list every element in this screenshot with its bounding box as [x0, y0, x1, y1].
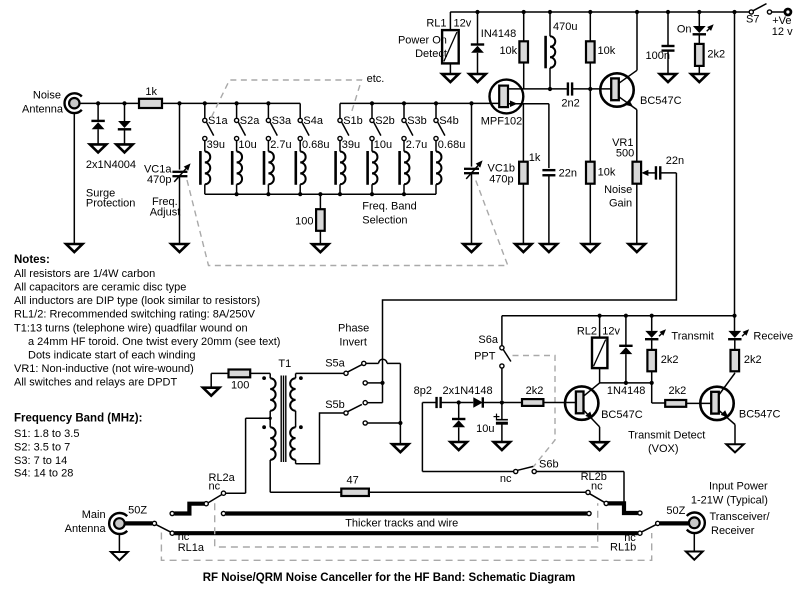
diode 1N4148 shunt: [457, 400, 461, 404]
svg-text:Frequency Band (MHz):: Frequency Band (MHz):: [14, 413, 142, 425]
wire MPF102 drain line: [508, 88, 567, 90]
svg-text:100n: 100n: [646, 50, 670, 62]
resistor 100 primary load: [203, 388, 219, 396]
diode IN4148 power-on: [475, 10, 479, 14]
resistor 10k emitter: [589, 89, 591, 162]
svg-text:S6b: S6b: [539, 458, 559, 470]
resistor 2k2 Q3 base: [502, 402, 522, 404]
transistor MPF102 JFET U1: [490, 80, 524, 114]
diode 1N4004 surge a: [96, 101, 100, 105]
ground below VC1b: [463, 244, 479, 252]
svg-text:1N4148: 1N4148: [607, 385, 646, 397]
resistor 47 bridge: [270, 491, 341, 493]
svg-text:Noise: Noise: [33, 89, 61, 101]
ground below 100n: [660, 74, 676, 82]
resistor 2k2 Q4 base: [665, 400, 686, 407]
wire T1 secondary bottom to S5b: [296, 413, 344, 464]
svg-text:S3b: S3b: [407, 115, 427, 127]
svg-text:39u: 39u: [342, 139, 360, 151]
svg-text:T1:13 turns (telephone wire) q: T1:13 turns (telephone wire) quadfilar w…: [14, 323, 248, 335]
inductor 39u (S1b band): [339, 141, 341, 152]
wire filter bank bottom bus: [205, 193, 436, 195]
relay contact RL1b: [642, 525, 656, 532]
svg-text:12v: 12v: [602, 325, 620, 337]
svg-text:S4a: S4a: [303, 115, 323, 127]
capacitor 100n decoupling: [666, 10, 670, 14]
svg-text:470p: 470p: [489, 173, 513, 185]
svg-text:S6a: S6a: [478, 334, 498, 346]
svg-text:Phase: Phase: [338, 322, 369, 334]
diode 1N4004 surge b: [122, 101, 126, 105]
svg-text:0.68u: 0.68u: [302, 139, 330, 151]
svg-text:Power On: Power On: [398, 35, 447, 47]
node S5b ground throw: [363, 421, 367, 425]
ground below 2k2: [691, 74, 707, 82]
switch S7 power: [749, 10, 753, 14]
svg-text:10u: 10u: [374, 139, 392, 151]
ground input connector: [686, 552, 703, 560]
svg-text:2x1N4148: 2x1N4148: [443, 385, 493, 397]
wire S5a ground throw with hop: [366, 362, 379, 364]
svg-text:470u: 470u: [553, 21, 577, 33]
ground below 22n: [541, 244, 557, 252]
switch S6a PPT: [501, 316, 503, 346]
wire noise signal to phase switch: [660, 172, 676, 174]
svg-text:S4: 14 to 28: S4: 14 to 28: [14, 468, 73, 480]
wire top +12V rail: [450, 11, 749, 13]
svg-text:10k: 10k: [598, 166, 616, 178]
relay RL1 coil: [449, 12, 451, 30]
wire Q4 base: [686, 402, 711, 404]
resistor 1k input: [139, 99, 162, 108]
ground below diode b: [116, 144, 132, 152]
inductor 10u (S2a band): [236, 141, 238, 152]
svg-text:1-21W (Typical): 1-21W (Typical): [691, 495, 768, 507]
svg-text:RL1a: RL1a: [178, 542, 205, 554]
svg-text:(VOX): (VOX): [648, 443, 679, 455]
svg-text:2n2: 2n2: [561, 97, 579, 109]
inductor 39u (S1a band): [204, 141, 206, 152]
resistor 2k2 transmit LED: [651, 339, 653, 350]
wire main antenna ground lead: [118, 534, 120, 552]
svg-text:BC547C: BC547C: [739, 409, 781, 421]
svg-text:39u: 39u: [207, 139, 225, 151]
capacitor 8p2 VOX input: [422, 402, 436, 404]
capacitor 22n source bypass: [548, 104, 550, 168]
wire T1 primary centre tap to RL2a: [269, 417, 272, 420]
svg-text:2.7u: 2.7u: [406, 139, 427, 151]
svg-text:12 v: 12 v: [772, 26, 793, 38]
switch S4a: [299, 103, 301, 118]
svg-text:8p2: 8p2: [414, 385, 432, 397]
wire S5b signal throw: [367, 402, 382, 404]
switch S3a: [267, 103, 269, 118]
dashed box inner thick-track zone: [215, 503, 598, 547]
LED Transmit: [651, 316, 653, 331]
switch S6b: [514, 469, 518, 473]
svg-text:S1: 1.8 to 3.5: S1: 1.8 to 3.5: [14, 428, 79, 440]
svg-text:47: 47: [347, 474, 359, 486]
connector Main Antenna 50Z: [109, 513, 127, 534]
svg-text:RL1: RL1: [426, 18, 446, 30]
switch S2b: [371, 103, 373, 118]
wire Q1 emitter: [619, 97, 637, 110]
transformer T1: [280, 376, 282, 463]
switch S4b: [435, 103, 437, 118]
svg-text:On: On: [677, 24, 692, 36]
svg-text:+Ve: +Ve: [772, 15, 791, 27]
diode 1N4148 series: [473, 397, 483, 407]
svg-text:Antenna: Antenna: [22, 103, 64, 115]
wire T1 secondary top to S5a: [296, 372, 344, 374]
svg-text:1k: 1k: [145, 86, 157, 98]
svg-text:S2b: S2b: [375, 115, 395, 127]
svg-text:Noise: Noise: [604, 184, 632, 196]
ground below 1k: [515, 244, 531, 252]
svg-text:RF Noise/QRM Noise Canceller f: RF Noise/QRM Noise Canceller for the HF …: [203, 572, 576, 584]
resistor 100 bank damping: [319, 194, 321, 209]
svg-text:470p: 470p: [147, 174, 171, 186]
ground below IN4148: [469, 74, 485, 82]
switch S2a: [236, 103, 238, 118]
switch S1b: [339, 103, 341, 118]
ground noise antenna: [66, 244, 82, 252]
svg-text:MPF102: MPF102: [481, 116, 523, 128]
svg-text:Input Power: Input Power: [709, 481, 768, 493]
svg-text:PPT: PPT: [474, 351, 496, 363]
svg-text:a 24mm HF toroid. One twist ev: a 24mm HF toroid. One twist every 20mm (…: [28, 336, 280, 348]
wire noise input bus: [80, 102, 140, 104]
svg-text:S4b: S4b: [439, 115, 459, 127]
ground below Q4: [726, 444, 743, 452]
svg-text:100: 100: [231, 380, 249, 392]
connector Noise Antenna: [65, 93, 82, 113]
resistor 10k drain load: [522, 10, 526, 14]
transistor BC547C Q3 VOX: [565, 386, 598, 419]
wire Q4 collector: [719, 373, 735, 395]
wire input connector ground lead: [693, 533, 695, 551]
svg-text:Antenna: Antenna: [65, 523, 107, 535]
inductor 0.68u (S4a band): [299, 141, 301, 152]
svg-text:2x1N4004: 2x1N4004: [86, 159, 136, 171]
svg-text:10k: 10k: [499, 45, 517, 57]
svg-text:2k2: 2k2: [707, 49, 725, 61]
svg-text:S3a: S3a: [272, 115, 292, 127]
svg-text:S5b: S5b: [325, 399, 345, 411]
svg-text:All inductors are DIP type (lo: All inductors are DIP type (look similar…: [14, 295, 260, 307]
svg-text:Receive: Receive: [753, 330, 793, 342]
inductor 2.7u (S3a band): [267, 141, 269, 152]
svg-text:Receiver: Receiver: [711, 525, 755, 537]
ground below shunt diode: [451, 442, 467, 450]
ground below VC1a: [171, 244, 187, 252]
capacitor 10u electrolytic: [500, 400, 504, 404]
wire MPF102 source line: [508, 103, 549, 105]
svg-text:RL1b: RL1b: [610, 542, 636, 554]
relay contact RL2a: [221, 491, 225, 495]
resistor 1k source: [522, 104, 524, 162]
ground below VR1: [629, 244, 645, 252]
diode 1N4148 flyback: [625, 316, 627, 346]
relay RL2 coil: [599, 316, 601, 338]
svg-text:Invert: Invert: [339, 337, 367, 349]
svg-text:10u: 10u: [476, 423, 494, 435]
svg-text:2k2: 2k2: [661, 354, 679, 366]
svg-text:50Z: 50Z: [128, 505, 147, 517]
svg-text:RL1/2: Rrecommended switching: RL1/2: Rrecommended switching rating: 8A…: [14, 308, 256, 320]
svg-text:VR1: Non-inductive (not wire-: VR1: Non-inductive (not wire-wound): [14, 363, 194, 375]
ground below 100: [312, 244, 328, 252]
svg-text:All resistors are 1/4W carbon: All resistors are 1/4W carbon: [14, 268, 155, 280]
svg-text:Transmit: Transmit: [671, 330, 713, 342]
svg-text:Detect: Detect: [415, 48, 447, 60]
svg-text:10u: 10u: [238, 139, 256, 151]
svg-text:10k: 10k: [598, 45, 616, 57]
potentiometer VR1 500 noise gain: [633, 162, 642, 184]
svg-text:2k2: 2k2: [744, 354, 762, 366]
wire noise bus to MPF102 gate (group b): [340, 102, 499, 104]
svg-text:S1b: S1b: [343, 115, 363, 127]
svg-text:nc: nc: [500, 473, 512, 485]
node dots top bus group a: [203, 101, 207, 105]
connector Input Power 50Z: [687, 513, 705, 534]
switch S3b: [403, 103, 405, 118]
svg-text:Transmit Detect: Transmit Detect: [628, 430, 705, 442]
wire S6b to RL2b: [536, 471, 624, 473]
wire Q1 collector: [619, 70, 637, 83]
resistor 2k2 receive LED: [734, 339, 736, 350]
svg-text:Transceiver/: Transceiver/: [710, 511, 771, 523]
svg-text:Main: Main: [82, 509, 106, 521]
terminal +Ve 12v: [785, 9, 791, 15]
svg-text:Adjust: Adjust: [150, 207, 181, 219]
wire VOX pickup from main line: [421, 403, 423, 472]
svg-text:Thicker tracks and wire: Thicker tracks and wire: [345, 518, 458, 530]
ground below diode a: [90, 144, 106, 152]
switch S1a: [204, 103, 206, 118]
ground phase switch: [392, 444, 408, 452]
svg-text:S2a: S2a: [240, 115, 260, 127]
ground below 10k: [582, 244, 598, 252]
relay contact RL1a: [152, 521, 156, 525]
svg-text:2.7u: 2.7u: [270, 139, 291, 151]
svg-text:nc: nc: [591, 480, 603, 492]
svg-text:2k2: 2k2: [526, 385, 544, 397]
ground below 10u: [494, 442, 510, 450]
relay contact RL2b: [586, 490, 590, 494]
label + polarity: [494, 416, 500, 418]
resistor 10k collector load: [588, 10, 592, 14]
svg-text:1k: 1k: [529, 152, 541, 164]
ground below RL1: [442, 74, 458, 82]
wire bottom thick track: [174, 531, 638, 535]
svg-text:100: 100: [295, 215, 313, 227]
svg-text:Protection: Protection: [86, 198, 136, 210]
wire noise antenna ground lead: [73, 113, 75, 244]
node T1 winding start dots: [262, 376, 266, 380]
variable capacitor VC1a: [177, 101, 181, 105]
LED Receive: [734, 316, 736, 331]
svg-text:All capacitors are ceramic dis: All capacitors are ceramic disc type: [14, 281, 186, 293]
LED On indicator: [697, 10, 701, 14]
svg-text:S5a: S5a: [325, 358, 345, 370]
svg-text:T1: T1: [278, 358, 291, 370]
svg-text:RL2: RL2: [577, 325, 597, 337]
svg-text:All switches and relays are DP: All switches and relays are DPDT: [14, 376, 178, 388]
capacitor 22n wiper coupling: [655, 166, 657, 179]
wire middle thick track: [221, 511, 225, 515]
transistor BC547C Q1 noise amp: [600, 73, 633, 106]
capacitor 2n2 coupling: [567, 82, 569, 95]
svg-text:22n: 22n: [666, 155, 684, 167]
inductor 0.68u (S4b band): [435, 141, 437, 152]
wire +12V switched line: [502, 315, 735, 317]
wire Q4 emitter: [719, 410, 735, 424]
svg-text:Dots indicate start of each wi: Dots indicate start of each winding: [28, 349, 196, 361]
ground below Q3: [591, 442, 607, 450]
svg-text:Gain: Gain: [609, 197, 632, 209]
ground main antenna: [111, 552, 128, 560]
resistor 2k2 LED: [695, 44, 704, 66]
svg-text:12v: 12v: [454, 18, 472, 30]
svg-text:Selection: Selection: [362, 214, 407, 226]
svg-text:BC547C: BC547C: [640, 95, 682, 107]
svg-text:500: 500: [616, 148, 634, 160]
wire RL2 drive rail: [600, 382, 652, 384]
wire +12V feed down right side: [732, 10, 736, 14]
node dots top bus group b: [370, 101, 374, 105]
dashed box outer thick-track zone: [161, 533, 651, 561]
dashed gang link S6a-S6b: [513, 356, 556, 467]
dashed annotation etc. bracket: [212, 80, 362, 117]
switch S5a phase: [344, 371, 348, 375]
svg-text:etc.: etc.: [367, 73, 385, 85]
wire Q3 emitter: [584, 410, 600, 427]
svg-text:IN4148: IN4148: [481, 28, 516, 40]
svg-text:nc: nc: [209, 481, 221, 493]
dashed gang link VC1a-VC1b: [187, 180, 508, 266]
svg-text:S2: 3.5 to 7: S2: 3.5 to 7: [14, 442, 70, 454]
transistor BC547C Q4 receive: [700, 387, 733, 420]
wire to Q4 base resistor: [651, 383, 653, 403]
svg-text:S7: S7: [746, 13, 759, 25]
svg-text:0.68u: 0.68u: [438, 139, 466, 151]
wire Q3 collector: [584, 383, 600, 396]
svg-text:2k2: 2k2: [669, 385, 687, 397]
svg-text:Notes:: Notes:: [14, 254, 50, 266]
svg-text:Freq. Band: Freq. Band: [362, 201, 416, 213]
inductor 470u: [548, 10, 552, 14]
variable capacitor VC1b: [469, 101, 473, 105]
node S5a signal throw: [363, 381, 367, 385]
svg-text:BC547C: BC547C: [601, 409, 643, 421]
wiper arrow VR1: [646, 172, 656, 174]
inductor 10u (S2b band): [371, 141, 373, 152]
switch S5b phase: [344, 411, 348, 415]
svg-text:22n: 22n: [559, 167, 577, 179]
inductor 2.7u (S3b band): [403, 141, 405, 152]
svg-text:50Z: 50Z: [666, 505, 685, 517]
svg-text:S3: 7 to 14: S3: 7 to 14: [14, 455, 67, 467]
